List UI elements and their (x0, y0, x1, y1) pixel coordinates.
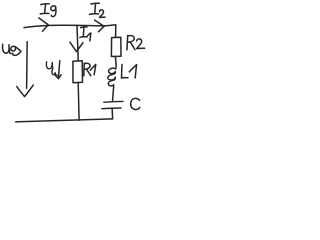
label I2 (90, 3, 106, 17)
wire bottom horizontal (16, 119, 113, 122)
label Ig (40, 4, 56, 17)
wire capacitor down to bottom corner (111, 109, 113, 119)
wire right corner down to R2 (115, 25, 117, 37)
arrowhead I1 current on middle branch (70, 42, 83, 51)
arrow Ug voltage (down) (26, 42, 29, 89)
resistor R1 (73, 61, 83, 83)
label C (131, 98, 140, 109)
label I1 (80, 27, 91, 41)
wire L1 to capacitor (113, 86, 114, 101)
label R2 (127, 36, 145, 50)
arrow u voltage (down) beside R1 (58, 61, 59, 79)
arrowhead Ig current on top wire (39, 18, 49, 31)
resistor R2 (111, 37, 121, 56)
label u voltage across R1 (46, 62, 57, 75)
capacitor C bottom plate (102, 107, 121, 110)
arrowhead I2 current on top wire (95, 20, 105, 32)
wire R1 down to bottom (77, 83, 80, 121)
label R1 (84, 63, 96, 76)
wire R2 to L1 (114, 57, 117, 64)
capacitor C top plate (104, 100, 123, 103)
label Ug (3, 44, 21, 55)
wire middle branch from top node down (77, 25, 78, 61)
label L1 (122, 65, 137, 79)
wire top horizontal (24, 25, 116, 28)
inductor L1 coil (108, 64, 116, 86)
